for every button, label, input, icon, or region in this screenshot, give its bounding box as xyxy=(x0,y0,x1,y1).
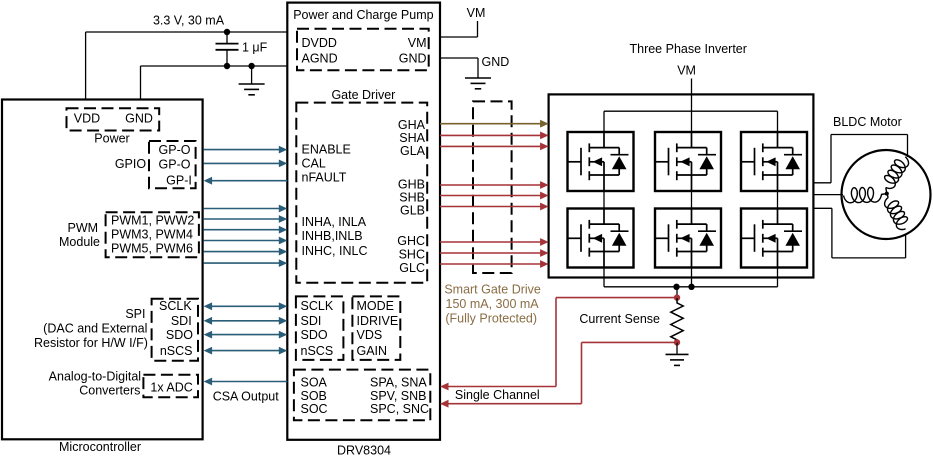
svg-text:(DAC and External: (DAC and External xyxy=(43,322,147,336)
svg-text:AGND: AGND xyxy=(302,52,338,66)
svg-text:VDS: VDS xyxy=(357,328,383,342)
svg-text:PWM1, PWW2: PWM1, PWW2 xyxy=(111,214,194,228)
svg-text:GHA: GHA xyxy=(398,118,426,132)
svg-text:SPV, SNB: SPV, SNB xyxy=(370,389,427,403)
svg-text:INHB,INLB: INHB,INLB xyxy=(302,229,363,243)
svg-text:GLB: GLB xyxy=(400,203,425,217)
svg-text:Module: Module xyxy=(59,235,100,249)
svg-text:SPA, SNA: SPA, SNA xyxy=(370,375,427,389)
svg-text:DVDD: DVDD xyxy=(302,36,337,50)
svg-text:Gate Driver: Gate Driver xyxy=(331,88,395,102)
svg-text:SCLK: SCLK xyxy=(159,299,192,313)
svg-text:CAL: CAL xyxy=(302,156,326,170)
svg-text:Current Sense: Current Sense xyxy=(579,312,660,326)
svg-text:nSCS: nSCS xyxy=(301,344,334,358)
svg-text:SHB: SHB xyxy=(399,190,425,204)
svg-text:GHC: GHC xyxy=(397,234,425,248)
svg-text:CSA Output: CSA Output xyxy=(213,389,280,403)
svg-text:INHA, INLA: INHA, INLA xyxy=(302,215,367,229)
svg-text:SDO: SDO xyxy=(301,328,328,342)
svg-text:Smart Gate Drive: Smart Gate Drive xyxy=(444,283,541,297)
svg-text:VM: VM xyxy=(467,6,486,20)
svg-text:Microcontroller: Microcontroller xyxy=(59,440,141,454)
svg-text:GP-O: GP-O xyxy=(159,158,191,172)
svg-text:1x ADC: 1x ADC xyxy=(150,380,192,394)
svg-text:GLA: GLA xyxy=(400,144,426,158)
svg-text:nSCS: nSCS xyxy=(160,344,193,358)
svg-text:INHC, INLC: INHC, INLC xyxy=(302,244,368,258)
svg-text:PWM5, PWM6: PWM5, PWM6 xyxy=(111,242,193,256)
svg-text:GAIN: GAIN xyxy=(357,344,388,358)
svg-text:VM: VM xyxy=(408,36,427,50)
svg-text:PWM: PWM xyxy=(68,221,99,235)
svg-text:IDRIVE: IDRIVE xyxy=(357,314,399,328)
svg-text:GLC: GLC xyxy=(399,261,425,275)
svg-text:GP-O: GP-O xyxy=(159,143,191,157)
svg-text:VM: VM xyxy=(677,64,696,78)
svg-text:SDO: SDO xyxy=(166,328,193,342)
svg-text:GHB: GHB xyxy=(398,177,425,191)
svg-text:GND: GND xyxy=(125,112,153,126)
svg-text:GP-I: GP-I xyxy=(166,173,192,187)
svg-text:Single Channel: Single Channel xyxy=(455,388,540,402)
svg-text:SDI: SDI xyxy=(301,314,322,328)
svg-text:Converters: Converters xyxy=(79,384,140,398)
svg-text:SDI: SDI xyxy=(171,314,192,328)
svg-text:SHC: SHC xyxy=(399,247,425,261)
svg-text:Three Phase Inverter: Three Phase Inverter xyxy=(629,42,746,56)
svg-text:GPIO: GPIO xyxy=(115,157,147,171)
svg-text:PWM3, PWM4: PWM3, PWM4 xyxy=(111,228,193,242)
svg-text:3.3 V, 30 mA: 3.3 V, 30 mA xyxy=(153,14,225,28)
svg-text:SOA: SOA xyxy=(301,375,328,389)
svg-text:nFAULT: nFAULT xyxy=(302,171,347,185)
svg-text:VDD: VDD xyxy=(74,112,100,126)
svg-text:DRV8304: DRV8304 xyxy=(337,444,391,458)
svg-text:SOB: SOB xyxy=(301,389,327,403)
svg-text:MODE: MODE xyxy=(357,299,395,313)
svg-text:GND: GND xyxy=(399,52,427,66)
svg-text:Resistor for H/W I/F): Resistor for H/W I/F) xyxy=(34,336,148,350)
svg-text:SCLK: SCLK xyxy=(301,299,334,313)
svg-text:SPC, SNC: SPC, SNC xyxy=(370,402,429,416)
svg-text:1 μF: 1 μF xyxy=(242,41,268,55)
svg-text:150 mA, 300 mA: 150 mA, 300 mA xyxy=(446,297,540,311)
svg-text:Analog-to-Digital: Analog-to-Digital xyxy=(49,370,141,384)
svg-text:GND: GND xyxy=(482,55,510,69)
svg-text:(Fully Protected): (Fully Protected) xyxy=(445,311,537,325)
svg-text:SPI: SPI xyxy=(125,307,145,321)
svg-text:BLDC Motor: BLDC Motor xyxy=(833,115,902,129)
svg-text:Power: Power xyxy=(94,131,129,145)
svg-text:Power and Charge Pump: Power and Charge Pump xyxy=(293,8,433,22)
svg-text:SOC: SOC xyxy=(301,402,328,416)
svg-text:ENABLE: ENABLE xyxy=(302,143,351,157)
